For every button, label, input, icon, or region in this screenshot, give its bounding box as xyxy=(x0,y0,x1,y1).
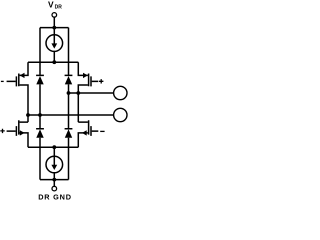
svg-text:DR GND: DR GND xyxy=(38,192,72,201)
svg-text:DR: DR xyxy=(55,5,63,11)
svg-text:V: V xyxy=(48,0,54,10)
